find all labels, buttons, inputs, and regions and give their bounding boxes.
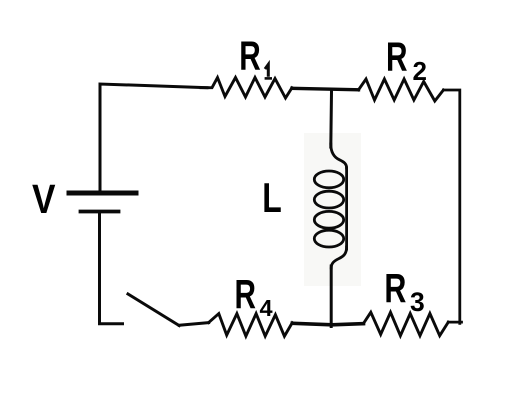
- svg-text:R: R: [386, 34, 408, 80]
- resistor R2: [359, 79, 444, 101]
- svg-text:3: 3: [410, 287, 425, 317]
- battery V: [69, 193, 136, 212]
- wire top-right corner: [443, 90, 459, 323]
- resistor R1: [201, 78, 292, 99]
- resistor R3: [364, 312, 449, 335]
- battery plate long: [69, 191, 136, 196]
- switch (open): [128, 294, 179, 326]
- svg-text:R: R: [384, 265, 406, 311]
- wire bottom node: [292, 323, 363, 325]
- inductor image background patch: [304, 133, 361, 286]
- wire battery bottom to switch corner: [100, 214, 123, 324]
- resistor R4: [209, 314, 293, 337]
- inductor L: [314, 144, 346, 268]
- svg-text:2: 2: [413, 56, 427, 86]
- wire node between R1 and R2: [292, 88, 359, 90]
- svg-text:R: R: [235, 271, 257, 317]
- svg-text:L: L: [262, 174, 282, 221]
- wire R3 to right corner: [448, 321, 461, 324]
- svg-text:V: V: [32, 176, 56, 222]
- wire switch to R4: [179, 323, 208, 326]
- wire inductor bottom to node: [330, 266, 333, 327]
- battery plate short: [81, 210, 119, 214]
- wire top-left corner: [100, 84, 207, 191]
- svg-text:4: 4: [260, 295, 273, 321]
- svg-text:R: R: [239, 32, 260, 78]
- wire junction to inductor top: [329, 92, 333, 148]
